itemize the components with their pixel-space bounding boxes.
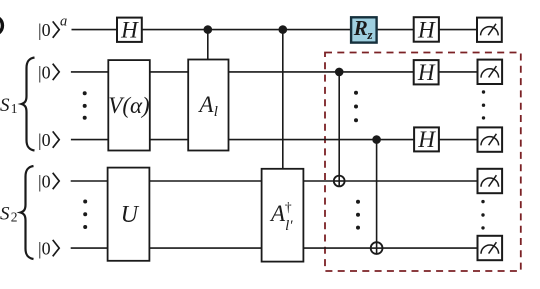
- gate Rz: [351, 16, 377, 43]
- vdots inside box upper: [354, 91, 358, 123]
- label S2: [0, 204, 18, 225]
- gate H s1-top: [414, 60, 439, 85]
- gate V(alpha): [108, 60, 150, 150]
- vdots meter column lower: [481, 200, 484, 230]
- wire s2-bot segment b: [149, 247, 261, 249]
- ket |0> s1-top: [38, 62, 59, 82]
- svg-text:|0: |0: [38, 171, 51, 191]
- gate H s1-bot: [414, 127, 439, 152]
- wire s2-top segment a: [71, 180, 108, 182]
- svg-text:H: H: [417, 60, 436, 85]
- svg-text:|0: |0: [38, 130, 51, 150]
- wire s1-bot segment a: [71, 139, 108, 141]
- wire q0 segment b: [142, 29, 351, 31]
- gate H q0 first: [117, 17, 142, 42]
- wire s2-bot segment c: [303, 247, 477, 249]
- gate A_l: [188, 60, 228, 151]
- svg-text:a: a: [60, 14, 67, 30]
- control dot on q0 above A_l: [204, 25, 213, 34]
- gate U: [108, 168, 150, 261]
- CNOT target on s2-top: [334, 176, 345, 187]
- svg-text:H: H: [120, 17, 139, 42]
- gate H q0 second: [414, 17, 439, 42]
- brace S1: [22, 58, 35, 151]
- vdots inside box lower: [356, 200, 360, 230]
- meter s1-top: [478, 60, 503, 84]
- svg-text:R: R: [353, 16, 368, 40]
- meter q0: [477, 18, 502, 42]
- control dot on s1-bot: [372, 135, 381, 144]
- svg-text:2: 2: [11, 210, 18, 225]
- svg-text:|0: |0: [38, 62, 51, 82]
- control dot on q0 above A_l': [279, 25, 288, 34]
- vdots meter column upper: [482, 90, 485, 119]
- wire s1-top segment a: [71, 71, 108, 73]
- vdots S1 left: [83, 91, 87, 120]
- control line q0 to A_l': [282, 30, 284, 169]
- wire s2-bot segment a: [71, 247, 108, 249]
- control line s1bot to cnot2: [376, 140, 378, 255]
- partial figure label ')' at left edge: [0, 18, 2, 33]
- svg-text:|0: |0: [38, 239, 51, 259]
- svg-text:A: A: [269, 201, 286, 226]
- gate A_l' dagger: [262, 169, 304, 262]
- svg-text:S: S: [0, 95, 10, 116]
- svg-text:z: z: [366, 27, 373, 42]
- ket |0> s1-bot: [38, 130, 59, 150]
- wire q0 segment a: [72, 29, 118, 31]
- meter s2-top: [478, 169, 503, 193]
- wire s2-top segment b: [149, 180, 261, 182]
- CNOT target on s2-bot: [371, 242, 383, 254]
- ket |0> s2-bot: [38, 239, 59, 259]
- brace S2: [21, 166, 34, 259]
- wire s1-bot segment c: [229, 139, 415, 141]
- wire s1-top segment b: [150, 71, 188, 73]
- vdots S2 left: [83, 200, 87, 230]
- control line q0 to A_l: [207, 30, 209, 60]
- ket |0> s2-top: [38, 171, 59, 191]
- wire s1-bot segment b: [150, 139, 188, 141]
- dashed region box: [325, 53, 521, 272]
- svg-text:H: H: [417, 17, 436, 42]
- svg-text:H: H: [417, 127, 436, 152]
- meter s1-bot: [478, 127, 503, 151]
- wire s1-bot segment d: [439, 139, 478, 141]
- ket |0>^a on q0: [38, 14, 67, 40]
- wire q0 segment d: [439, 29, 478, 31]
- svg-text:A: A: [197, 92, 214, 117]
- svg-text:l: l: [214, 104, 218, 120]
- svg-text:l′: l′: [285, 218, 293, 234]
- svg-text:1: 1: [11, 101, 18, 116]
- control dot on s1-top: [335, 68, 344, 77]
- svg-text:|0: |0: [38, 20, 51, 40]
- wire q0 segment c: [377, 29, 414, 31]
- svg-text:†: †: [285, 200, 292, 215]
- meter s2-bot: [478, 236, 503, 260]
- svg-text:V(α): V(α): [108, 93, 149, 118]
- control line s1top to cnot1: [338, 72, 340, 186]
- svg-text:S: S: [0, 204, 10, 225]
- svg-text:U: U: [121, 202, 140, 228]
- wire s1-top segment d: [439, 71, 478, 73]
- wire s1-top segment c: [229, 71, 414, 73]
- wire s2-top segment c: [303, 180, 477, 182]
- label S1: [0, 95, 18, 116]
